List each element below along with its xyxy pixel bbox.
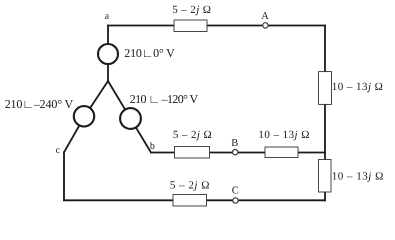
svg-text:10 – 13j Ω: 10 – 13j Ω — [332, 170, 384, 182]
wire source stem from a — [107, 26, 109, 82]
resistor 10-13j right lower — [319, 160, 332, 193]
svg-text:B: B — [231, 138, 238, 149]
wire right vertical — [324, 26, 326, 201]
svg-text:a: a — [105, 11, 110, 22]
node C terminal — [233, 198, 238, 203]
resistor 5-2j top — [174, 20, 207, 32]
svg-text:5 – 2j Ω: 5 – 2j Ω — [173, 129, 212, 141]
resistor 10-13j middle — [265, 147, 298, 158]
voltage source 210∟-240° V — [74, 106, 94, 126]
resistor 10-13j right upper — [319, 72, 332, 105]
node A terminal — [263, 23, 268, 28]
wire bottom — [64, 199, 325, 201]
wire left vertical (node c down) — [63, 152, 65, 200]
svg-text:10 – 13j Ω: 10 – 13j Ω — [332, 81, 384, 93]
svg-text:A: A — [261, 11, 269, 22]
wire diagonal to node c — [64, 81, 108, 152]
resistor 5-2j bottom — [173, 195, 207, 207]
svg-text:C: C — [232, 186, 239, 197]
svg-text:210∟0° V: 210∟0° V — [124, 46, 175, 60]
wire middle row: node b to right vertical — [151, 152, 325, 154]
svg-text:5 – 2j Ω: 5 – 2j Ω — [170, 180, 210, 192]
resistor 5-2j middle — [175, 147, 210, 159]
voltage source 210∟0° V — [98, 44, 118, 64]
svg-text:10 – 13j Ω: 10 – 13j Ω — [258, 129, 310, 141]
wire top: node a to node A to right corner — [108, 25, 325, 27]
node B terminal — [233, 150, 238, 155]
svg-text:210 ∟ –120° V: 210 ∟ –120° V — [130, 92, 199, 106]
svg-text:b: b — [150, 141, 155, 152]
voltage source 210∟-120° V — [120, 108, 141, 129]
svg-text:c: c — [56, 145, 61, 156]
wire diagonal to node b — [108, 81, 151, 153]
svg-text:210∟–240° V: 210∟–240° V — [5, 97, 74, 111]
svg-text:5 – 2j Ω: 5 – 2j Ω — [172, 4, 211, 16]
